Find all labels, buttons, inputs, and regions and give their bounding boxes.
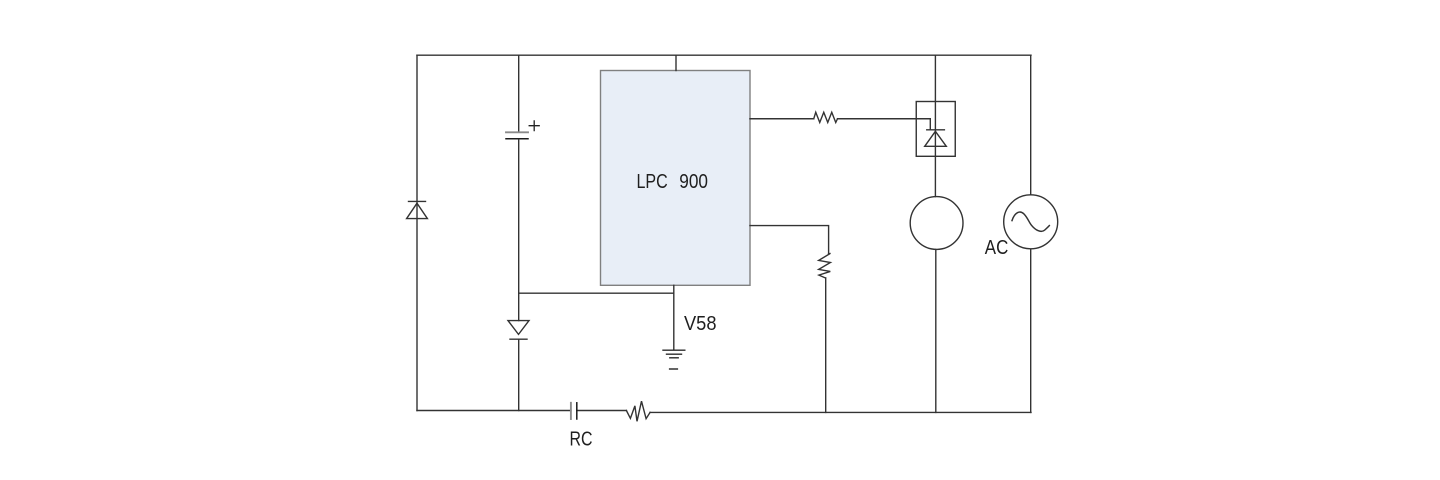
svg-text:LPC: LPC — [637, 171, 668, 193]
wire (capacitor branch, top-wire to capacitor C1) — [518, 55, 520, 131]
pin wire (U1 top pin to top wire) — [675, 55, 677, 70]
AC source V1 (circle on right wire) — [1004, 195, 1058, 249]
pin wire (U1 bottom pin down to ground) — [673, 285, 675, 350]
svg-text:RC: RC — [570, 428, 593, 450]
outer top wire — [417, 54, 1031, 56]
wire (capacitor C1 to node, through junction at y=293) — [518, 140, 520, 321]
outer bottom wire (left of resistor R3) — [417, 410, 626, 412]
outer left wire — [416, 55, 418, 410]
label LPC 900 — [637, 171, 709, 193]
wire (resistor R2 to bottom wire) — [825, 278, 827, 412]
ground — [663, 350, 685, 358]
plus label for C1 — [529, 121, 539, 131]
capacitor C2 (bottom wire) — [571, 403, 577, 419]
wire (top wire through U2 to lamp M1) — [934, 55, 936, 196]
resistor R1 — [814, 112, 838, 122]
photodiode U2 (diode in box) — [916, 102, 955, 157]
resistor R2 (vertical) — [819, 253, 831, 278]
lamp M1 (circle) — [910, 197, 963, 250]
svg-text:900: 900 — [679, 171, 708, 193]
outer right wire (bottom segment) — [1030, 249, 1032, 413]
svg-text:V58: V58 — [684, 313, 717, 335]
wire (lamp M1 to bottom wire) — [935, 249, 937, 412]
capacitor C1 (polarized) — [506, 132, 528, 139]
IC U1 LPC 900 — [601, 71, 751, 286]
diode D2 (capacitor branch, pointing down) — [508, 321, 529, 340]
sine wave inside AC source — [1012, 212, 1049, 231]
diode D1 (left branch, pointing up) — [407, 201, 428, 218]
wire (U1 lower right pin to resistor R2) — [750, 226, 829, 254]
resistor R3 (bottom wire) — [626, 401, 650, 421]
wire (U1 upper right pin to resistor R1) — [750, 118, 814, 120]
wire (diode D2 to bottom wire) — [518, 339, 520, 410]
outer bottom wire (right of resistor R3) — [650, 411, 1031, 413]
outer right wire (top segment) — [1030, 55, 1032, 195]
wire (resistor R1 to photodiode U2, elbow down) — [838, 119, 931, 130]
wire (node junction, U1 bottom area to capacitor branch) — [519, 292, 674, 294]
svg-text:AC: AC — [985, 237, 1009, 259]
minus label (below ground) — [670, 368, 678, 370]
